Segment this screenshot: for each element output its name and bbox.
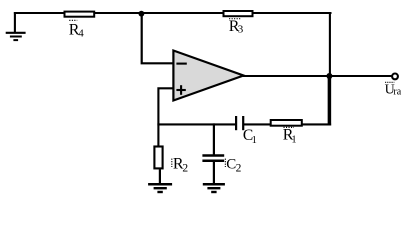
wire: feedback drop from top rail to output node [329, 13, 331, 76]
wire: non-inverting input left and down to bottom rail [158, 88, 173, 146]
resistor R4 [65, 12, 95, 40]
wire: bottom rail left segment (to C1 left plate) [157, 123, 236, 125]
capacitor C1 [236, 116, 257, 146]
svg-text:1: 1 [291, 135, 296, 146]
svg-text:1: 1 [252, 135, 257, 146]
label Ura output voltage [385, 82, 402, 97]
ground (top-left) [6, 12, 26, 40]
svg-text:2: 2 [236, 163, 242, 175]
wire: from node A down and right to inverting input [142, 14, 174, 64]
wire: op-amp output to terminal [243, 75, 392, 77]
node B: output junction dot [326, 73, 332, 79]
svg-text:3: 3 [238, 23, 244, 35]
svg-text:2: 2 [182, 163, 188, 175]
wire: thick drop from output node to bottom rail [328, 76, 332, 126]
wire: top rail from ground to top-right corner [14, 12, 332, 14]
wire: R2 bottom to ground [159, 169, 161, 184]
op-amp U1 [173, 51, 243, 101]
svg-text:4: 4 [78, 27, 84, 39]
ground (under R2) [148, 184, 172, 192]
terminal: output port circle [392, 74, 398, 80]
ground (under C2) [203, 184, 225, 192]
wire: C2 bottom to ground [213, 161, 215, 185]
resistor R3 [224, 11, 253, 35]
resistor R2 [154, 147, 188, 175]
capacitor C2 [202, 123, 241, 174]
wire: bottom rail right segment (C1 right plate to thick drop) [243, 123, 331, 125]
svg-text:ra: ra [393, 86, 401, 97]
node A: junction dot on top rail [139, 11, 145, 17]
resistor R1 [271, 120, 302, 146]
